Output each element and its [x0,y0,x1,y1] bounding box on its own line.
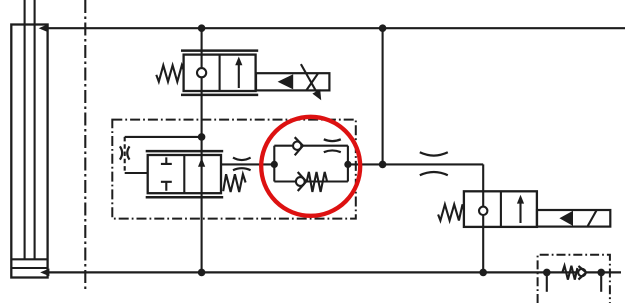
cylinder body [11,25,47,278]
restrictor on pilot line [120,146,130,159]
valve V1 spring [156,65,183,81]
wire V2 outlet [221,163,274,165]
node V2 to bottom rail [198,269,206,277]
valve V2 flow arrow head [198,158,205,167]
arrow into cylinder top port [39,24,48,32]
check module inlet stub [546,272,548,291]
wire to right branch [348,163,483,165]
node top rail V1 junction [198,24,206,32]
pilot line dashed [124,137,126,173]
valve V3 orifice circle [479,207,487,215]
wire check block left riser [273,146,275,182]
red highlight circle [261,117,360,216]
wire top supply rail [44,27,625,29]
valve V1 divider [219,55,221,91]
cylinder piston seal line 2 [11,267,47,269]
valve V1 subplate bottom line [181,94,258,97]
valve V2 blocked port bottom [161,182,172,191]
check valve CV1 [293,142,301,150]
dashed enclosure box D1 [112,120,355,219]
throttle T1 [233,158,251,171]
wire bottom return rail [45,271,621,273]
wire down to valve V3 [482,164,484,272]
wire pilot to valve V2 [125,172,148,174]
valve V1 orifice circle [197,68,206,77]
valve V1 subplate top line [181,49,258,52]
valve V3 divider [500,191,502,227]
node pilot branch junction [198,133,206,141]
node top rail right branch junction [379,24,387,32]
check valve CV2 [296,177,305,186]
valve V2 blocked port top [161,157,172,164]
check valve CV3 spring [562,266,577,280]
valve V3 flow arrow [519,199,521,223]
solenoid S2 triangle [559,211,573,226]
wire check block bottom branch [274,180,348,182]
wire check block right riser [347,146,349,182]
check module outlet stub [600,272,602,291]
node V3 to bottom rail [479,269,487,277]
node check module inlet [543,269,551,277]
wire check block top branch [274,145,348,147]
cylinder rod right line [34,0,36,259]
node check block inlet [271,161,278,168]
dashed box D2 check module [538,255,610,303]
wire vertical main line through V1 and V2 [201,28,203,272]
valve V1 flow arrow [238,61,240,88]
node right branch junction [379,161,387,169]
valve V3 body [464,191,537,227]
node check block outlet [344,161,351,168]
solenoid S1 proportional arrow [301,64,316,91]
check valve CV3 [578,269,585,276]
valve V2 subplate top line [146,150,224,153]
valve V3 spring [438,204,464,220]
cylinder rod left line [24,0,26,259]
solenoid S2 slash [587,210,596,227]
centerline dash-dot [84,0,86,290]
valve V2 subplate bottom line [146,196,224,199]
solenoid S1 triangle [278,74,294,89]
arrow into cylinder bottom port [40,269,49,277]
throttle T2 [324,139,341,152]
check valve CV2 spring [307,172,327,192]
cylinder piston seal line 1 [11,258,47,260]
wire pilot branch horizontal [125,136,202,138]
solenoid S1 cross stroke [306,73,318,90]
valve V2 divider [183,155,185,193]
solenoid S1 box [256,73,329,90]
valve V2 return spring [223,174,245,192]
valve V1 body [184,55,256,91]
wire right branch vertical [382,28,384,164]
node check module outlet [597,269,605,277]
solenoid S2 box [537,210,610,227]
valve V2 body [148,155,221,193]
throttle T3 [420,152,448,175]
